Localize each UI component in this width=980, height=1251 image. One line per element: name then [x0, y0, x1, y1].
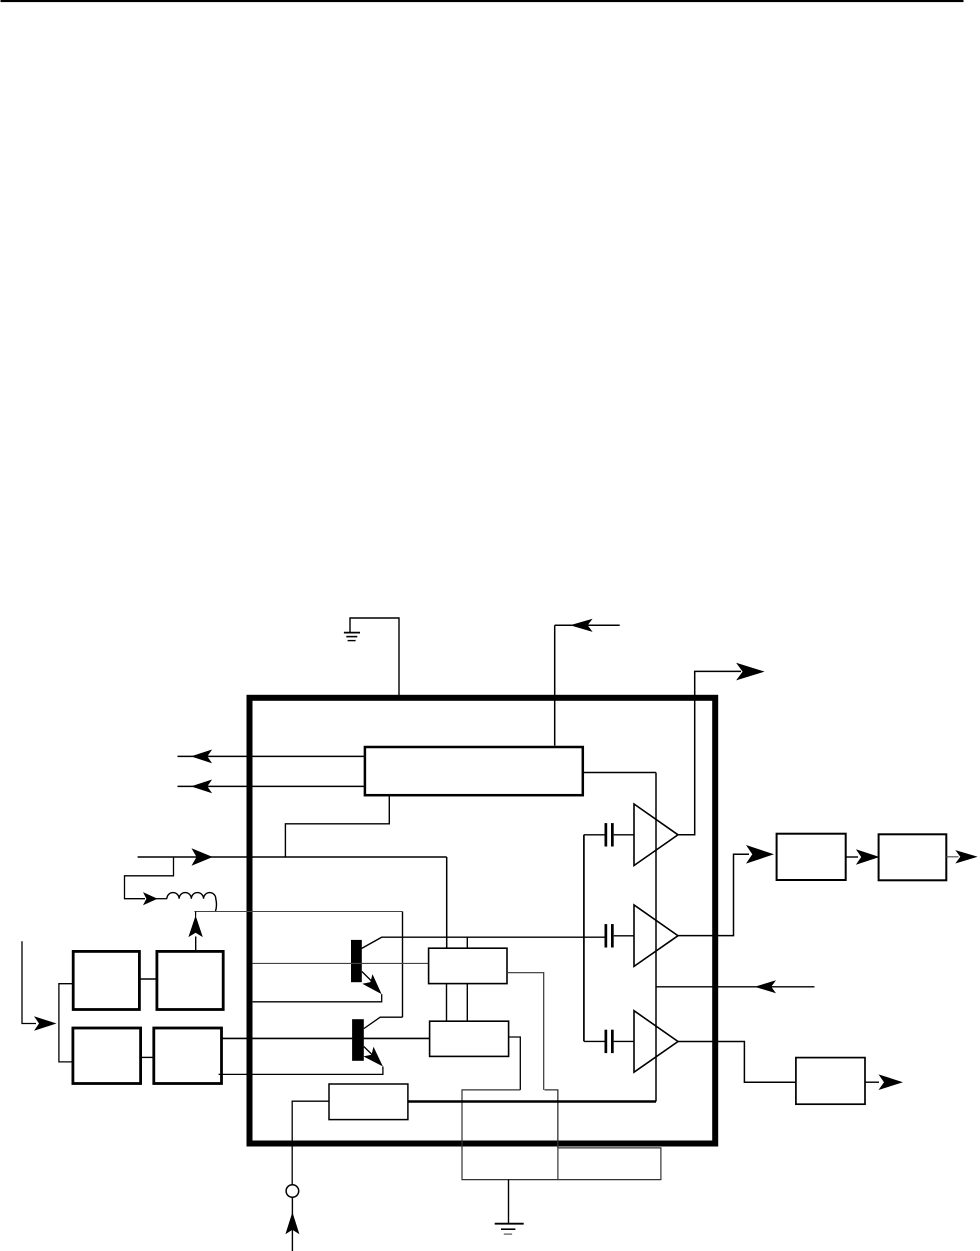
arrowhead left input: [192, 848, 213, 866]
block D1: [73, 951, 139, 1009]
wire left feed: [22, 941, 36, 1023]
capacitor C2: [605, 924, 608, 947]
pad box P1: [462, 1090, 661, 1180]
arrowhead into F1: [746, 845, 774, 864]
arrowhead into F2: [856, 849, 880, 865]
wire bus to C3: [584, 1040, 605, 1042]
capacitor C1: [605, 823, 608, 846]
wire oscillator rail: [194, 911, 402, 913]
wire pin input: [291, 1197, 293, 1251]
wire capacitor bus: [583, 835, 585, 1042]
arrowhead up to rail: [188, 916, 202, 938]
op-amp U2B: [634, 905, 678, 967]
wire top input: [555, 624, 620, 626]
arrowhead left output 2: [191, 780, 212, 794]
wire left input: [138, 856, 447, 858]
arrowhead F3 output: [879, 1074, 904, 1090]
wire B3 right down: [509, 1037, 521, 1090]
wire D3-D4 link: [141, 1056, 154, 1058]
op-amp U2A: [634, 804, 678, 866]
wire left output 1: [178, 755, 365, 757]
arrowhead Q2 emitter: [363, 1047, 383, 1067]
wire R1 output thick: [408, 1100, 656, 1103]
IC block U1 outline: [250, 698, 716, 1144]
block F3: [796, 1058, 865, 1105]
block B1 (control logic): [365, 747, 583, 795]
wire U2C output: [678, 1042, 796, 1083]
wire R1 to pin: [292, 1101, 329, 1185]
wire C1 to U2A: [614, 834, 634, 836]
resistor block R1: [329, 1084, 408, 1120]
wire right input: [656, 986, 815, 988]
inductor L1: [167, 893, 217, 912]
wire C3 to U2C: [614, 1040, 634, 1042]
wire block D2 to rail: [195, 937, 197, 952]
wire Q1 emitter: [253, 972, 382, 1002]
wire bus to C1: [584, 834, 605, 836]
wire step to inductor: [125, 857, 174, 899]
wire B2-B3 link 2: [466, 984, 468, 1022]
wire D1-D2 link: [139, 978, 157, 980]
block D4: [154, 1028, 222, 1084]
wire input bracket: [59, 984, 73, 1062]
wire vertical net x656: [655, 773, 657, 1102]
arrowhead right input: [755, 980, 776, 993]
wire Q2 collector: [364, 1017, 403, 1028]
arrowhead left output 1: [191, 750, 212, 764]
block B2: [429, 948, 507, 983]
arrowhead top input: [570, 619, 593, 632]
arrowhead top-right output: [736, 663, 765, 681]
wire B1 bottom to input net: [285, 796, 389, 857]
capacitor C3: [605, 1030, 608, 1053]
arrowhead F2 output: [955, 850, 977, 863]
wire C2 to U2B: [614, 935, 634, 937]
block D2: [157, 951, 223, 1009]
ground G1: [350, 618, 399, 695]
wire B1 right output: [583, 772, 656, 774]
wire U2B output: [678, 854, 749, 935]
wire Q2 emitter: [219, 1047, 383, 1075]
wire B2 right down: [507, 973, 544, 1090]
wire F3 output: [865, 1081, 879, 1083]
pin terminal circle: [286, 1185, 299, 1198]
arrowhead inductor feed: [143, 892, 158, 905]
block F1: [777, 834, 846, 880]
wire op-amp U2A output to top-right exit: [678, 671, 741, 834]
block B3: [430, 1021, 509, 1056]
transistor Q2 base bar: [352, 1019, 364, 1061]
ground G2: [508, 1180, 510, 1224]
block D3: [73, 1028, 141, 1084]
wire F2 output: [946, 856, 958, 858]
arrowhead Q1 emitter: [362, 974, 381, 994]
wire Q2 base: [221, 1037, 430, 1039]
op-amp U2C: [634, 1011, 678, 1072]
arrowhead left feed: [34, 1016, 57, 1031]
wire F1 to F2: [846, 856, 858, 858]
wire tap to block B2: [466, 937, 468, 948]
arrowhead pin input up: [285, 1212, 299, 1234]
wire Q1 collector: [362, 937, 605, 948]
wire left output 2: [178, 785, 365, 787]
wire Q1 base: [253, 962, 429, 964]
block F2: [879, 834, 947, 880]
wire inductor lead: [155, 898, 167, 900]
transistor Q1 base bar: [351, 940, 362, 982]
wire B2-B3 link 1: [446, 984, 448, 1022]
